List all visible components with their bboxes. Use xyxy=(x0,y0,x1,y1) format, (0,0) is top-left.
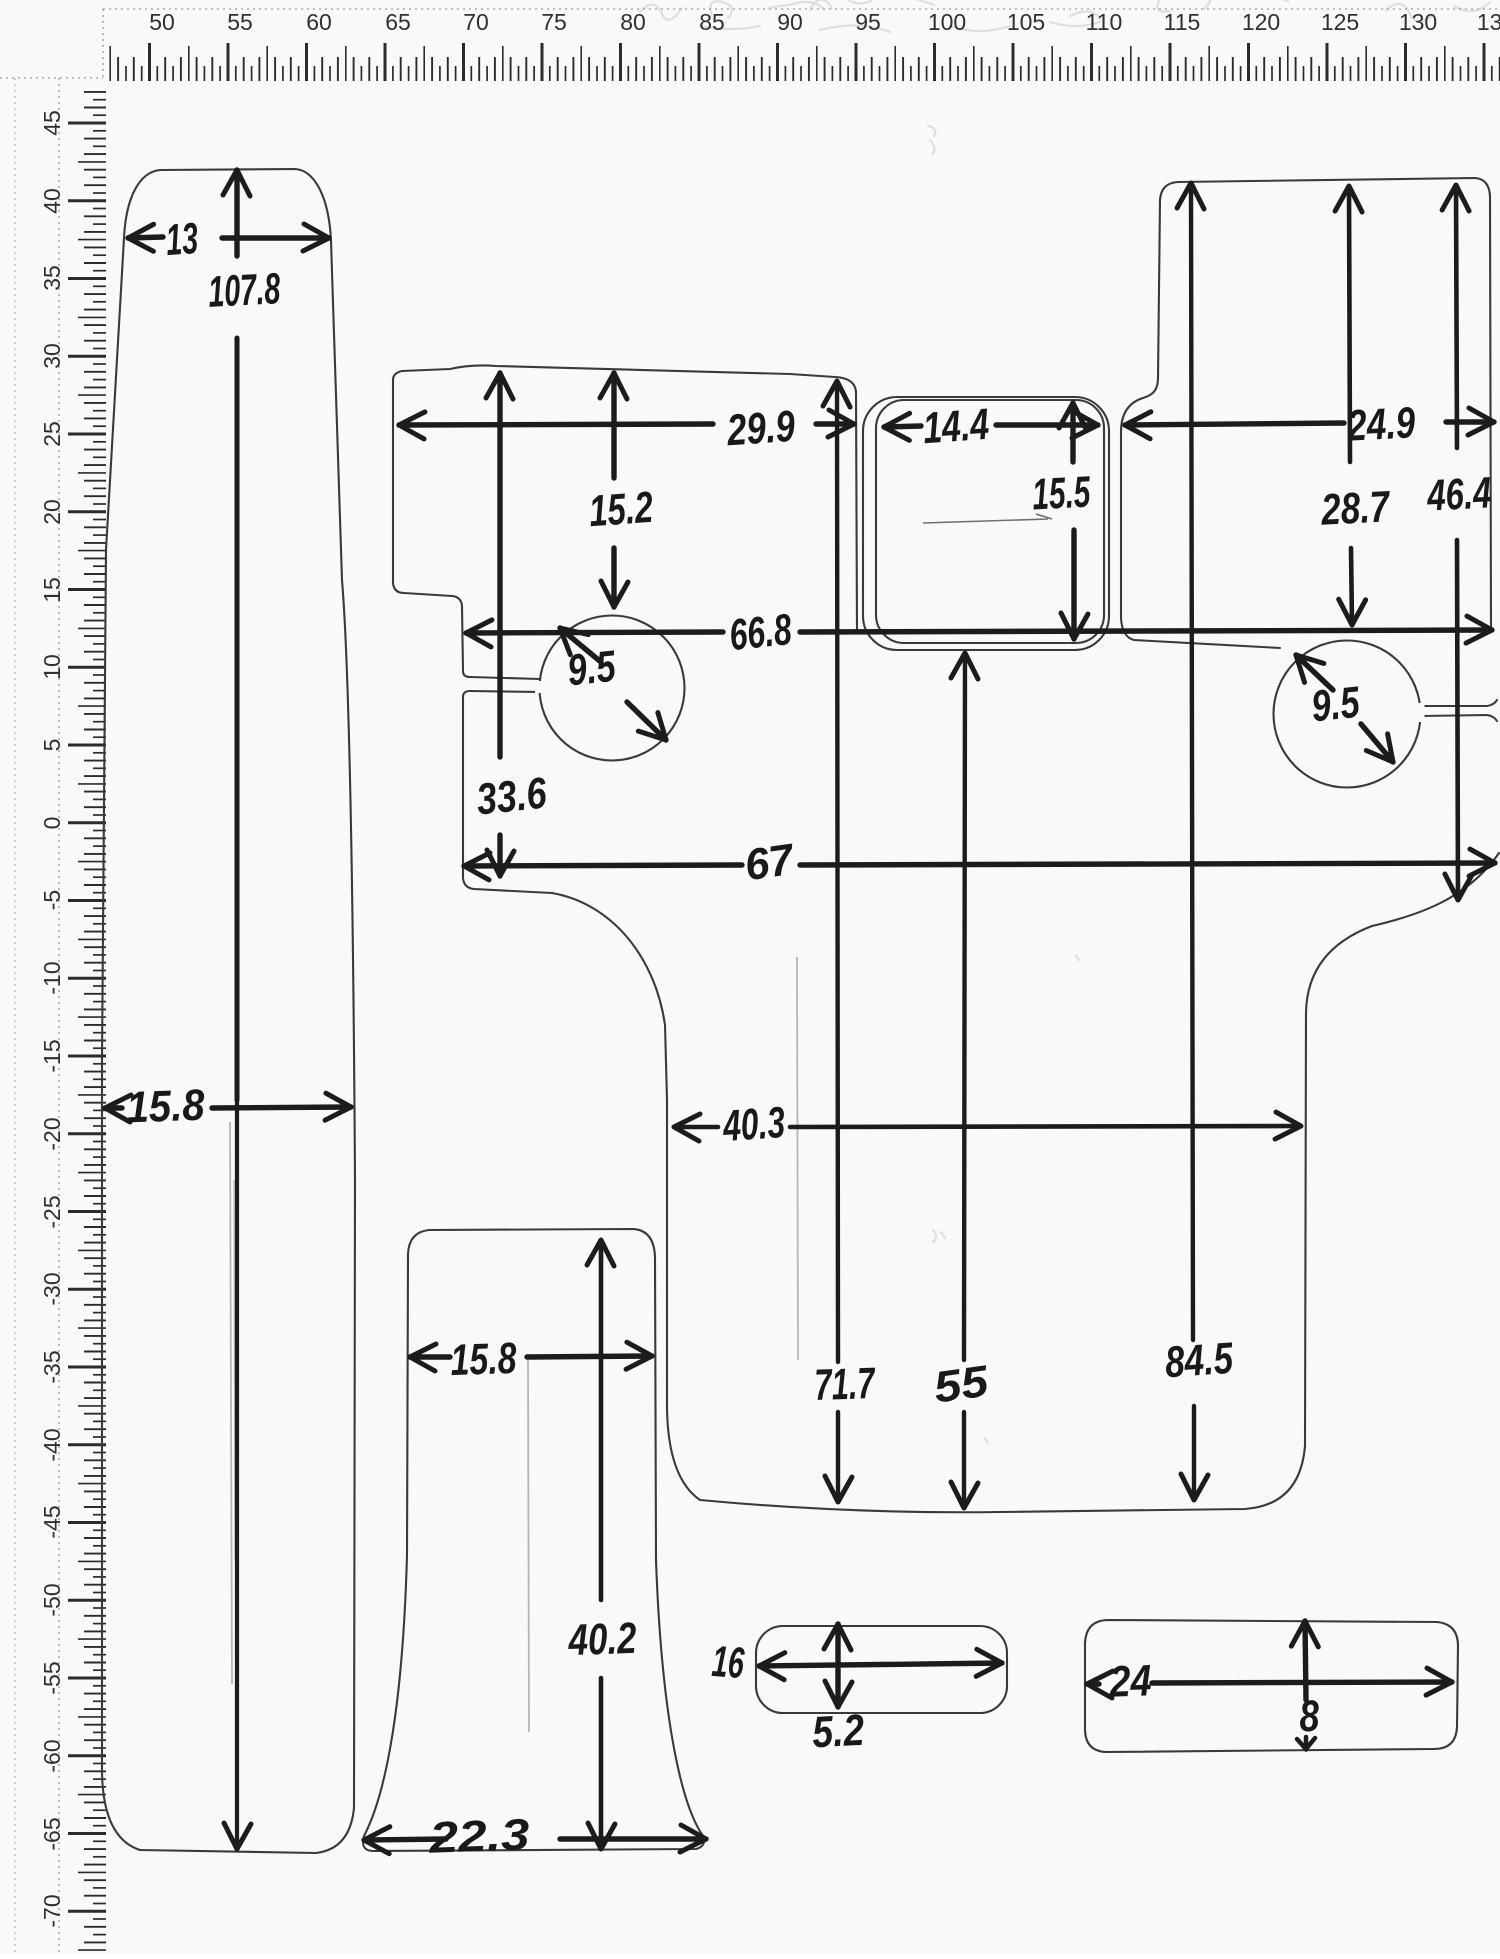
dim 8 vertical lower tiny arrow xyxy=(1297,1737,1315,1749)
svg-text:75: 75 xyxy=(541,9,567,35)
svg-text:-25: -25 xyxy=(39,1195,65,1228)
svg-text:-40: -40 xyxy=(39,1428,65,1461)
top ruler numbers xyxy=(149,9,1500,35)
svg-text:70: 70 xyxy=(463,9,489,35)
dim 28.7 vertical lower xyxy=(1351,548,1352,625)
svg-text:60: 60 xyxy=(306,9,332,35)
svg-text:40: 40 xyxy=(39,188,65,214)
circle cutout in piece E (9.5 dia) xyxy=(1274,641,1421,788)
faint bleed-through handwriting xyxy=(640,0,1490,1443)
dim 24.9 left part xyxy=(1125,423,1344,425)
svg-text:29.9: 29.9 xyxy=(725,402,797,456)
svg-text:40.3: 40.3 xyxy=(721,1098,787,1151)
svg-text:25: 25 xyxy=(39,421,65,447)
svg-text:71.7: 71.7 xyxy=(814,1359,877,1410)
svg-text:-45: -45 xyxy=(39,1505,65,1538)
dim 15.8 piece A left part xyxy=(105,1105,122,1110)
slot C bottom line xyxy=(463,691,540,697)
dim 13 arrow left part xyxy=(128,237,163,238)
dim 40.2 vertical upper xyxy=(599,1240,604,1600)
top ruler ticks xyxy=(110,43,1500,81)
svg-text:125: 125 xyxy=(1321,9,1359,35)
svg-text:-70: -70 xyxy=(39,1894,65,1927)
dim 15.8 piece B right part xyxy=(527,1356,652,1357)
svg-text:45: 45 xyxy=(39,110,65,136)
dim 67 left part xyxy=(464,865,742,866)
svg-text:8: 8 xyxy=(1298,1692,1321,1742)
dim 15.5 vertical upper xyxy=(1070,403,1075,462)
dim 46.4 vertical lower xyxy=(1457,540,1458,900)
dim 5.2 vertical arrow xyxy=(835,1624,840,1707)
dim 40.3 left part xyxy=(674,1125,718,1130)
svg-text:15.5: 15.5 xyxy=(1031,468,1092,520)
dim 84.5 vertical upper xyxy=(1191,183,1193,1340)
svg-text:-30: -30 xyxy=(39,1272,65,1305)
svg-text:5: 5 xyxy=(39,739,65,752)
svg-text:-15: -15 xyxy=(39,1039,65,1072)
dim 8 vertical upper xyxy=(1305,1621,1306,1700)
svg-text:15.2: 15.2 xyxy=(587,483,655,536)
svg-text:85: 85 xyxy=(699,9,725,35)
svg-text:-50: -50 xyxy=(39,1583,65,1616)
svg-text:100: 100 xyxy=(928,9,966,35)
piece M left edge upper xyxy=(393,380,463,670)
svg-text:90: 90 xyxy=(777,9,803,35)
circle cutout in piece M (9.5 dia) xyxy=(540,616,685,761)
svg-text:55: 55 xyxy=(227,9,253,35)
svg-text:5.2: 5.2 xyxy=(811,1706,866,1758)
piece M left edge lower xyxy=(666,1100,668,1408)
svg-text:28.7: 28.7 xyxy=(1319,482,1392,535)
svg-text:16: 16 xyxy=(710,1637,746,1688)
dim 22.3 right part xyxy=(560,1836,706,1841)
dim 107.8 vertical line lower xyxy=(235,338,240,1100)
dim 40.2 vertical lower xyxy=(599,1678,604,1849)
svg-text:33.6: 33.6 xyxy=(474,769,549,825)
dim 24 line xyxy=(1152,1682,1452,1683)
svg-text:110: 110 xyxy=(1086,9,1123,35)
svg-text:80: 80 xyxy=(620,9,646,35)
dim 33.6 vertical lower with small arrow xyxy=(497,835,502,876)
dim 66.8 right part xyxy=(800,630,1492,632)
piece E top edge xyxy=(1160,178,1490,200)
piece B lower-left plank outline xyxy=(363,1229,704,1851)
piece M top edge xyxy=(393,365,856,392)
dim 15.2 vertical upper xyxy=(611,373,616,478)
piece E right edge xyxy=(1490,196,1491,628)
svg-text:-55: -55 xyxy=(39,1661,65,1694)
svg-text:-5: -5 xyxy=(39,890,65,910)
svg-text:66.8: 66.8 xyxy=(727,605,794,660)
svg-text:-20: -20 xyxy=(39,1117,65,1150)
square piece D inner outline xyxy=(876,400,1104,643)
piece M left transition curve xyxy=(552,893,667,1100)
dim 9.5 circle C diagonal upper stroke xyxy=(560,628,601,662)
svg-text:105: 105 xyxy=(1007,9,1045,35)
slot E bottom line xyxy=(1422,715,1497,721)
dim 22.3 left part xyxy=(364,1839,446,1840)
svg-text:24.9: 24.9 xyxy=(1345,398,1417,451)
svg-text:-65: -65 xyxy=(39,1817,65,1850)
slot E top line xyxy=(1422,700,1497,706)
svg-text:15: 15 xyxy=(39,577,65,603)
thin pencil arrow inside square D xyxy=(923,514,1052,523)
faint pencil construction lines xyxy=(230,957,798,1732)
svg-text:40.2: 40.2 xyxy=(567,1614,638,1665)
svg-text:35: 35 xyxy=(39,265,65,291)
svg-text:9.5: 9.5 xyxy=(565,642,618,696)
dim 14.4 right part xyxy=(996,422,1098,427)
dim 24.9 right part xyxy=(1446,419,1494,424)
dim 71.7 vertical lower xyxy=(836,1412,840,1502)
svg-text:-10: -10 xyxy=(39,961,65,994)
svg-text:20: 20 xyxy=(39,499,65,525)
piece G bottom-right rectangle outline xyxy=(1085,1620,1458,1752)
svg-text:13: 13 xyxy=(164,214,199,265)
dim 9.5 circle E diagonal upper stroke xyxy=(1296,655,1333,690)
piece F small rectangle outline xyxy=(756,1626,1007,1713)
dim 71.7 vertical upper xyxy=(837,381,838,1362)
piece M right edge of upper section xyxy=(856,392,857,630)
svg-text:95: 95 xyxy=(855,9,881,35)
dim 66.8 left part xyxy=(466,632,723,633)
dim 9.5 circle C diagonal lower stroke xyxy=(627,702,666,740)
dim 9.5 circle E diagonal lower stroke xyxy=(1361,724,1393,762)
svg-text:46.4: 46.4 xyxy=(1425,468,1492,520)
dim 67 right part xyxy=(800,863,1495,865)
svg-text:107.8: 107.8 xyxy=(207,264,282,317)
piece M left edge mid xyxy=(463,696,552,893)
dim 40.3 right part xyxy=(790,1126,1301,1127)
piece E left edge xyxy=(1121,200,1160,618)
piece M right edge lower xyxy=(1305,853,1499,1446)
piece E bottom edge xyxy=(1121,618,1280,648)
square piece D outer outline xyxy=(756,397,1458,1752)
svg-text:10: 10 xyxy=(39,654,65,680)
svg-text:-35: -35 xyxy=(39,1350,65,1383)
svg-text:30: 30 xyxy=(39,343,65,369)
left ruler numbers xyxy=(39,110,65,1927)
svg-text:55: 55 xyxy=(931,1357,992,1413)
svg-text:115: 115 xyxy=(1164,9,1201,35)
svg-text:15.8: 15.8 xyxy=(450,1334,518,1385)
dim 33.6 vertical upper xyxy=(497,373,502,757)
dim 107.8 vertical line upper xyxy=(234,170,239,256)
left ruler ticks xyxy=(68,92,106,1950)
dim 15.2 vertical lower xyxy=(611,548,616,607)
dim 46.4 vertical upper xyxy=(1456,185,1457,448)
dim 13 arrow right part xyxy=(222,235,329,240)
svg-text:-60: -60 xyxy=(39,1739,65,1772)
dim 14.4 left part xyxy=(884,426,921,427)
svg-text:130: 130 xyxy=(1399,9,1437,35)
dim 28.7 vertical upper xyxy=(1349,186,1350,462)
svg-text:50: 50 xyxy=(149,9,175,35)
svg-text:15.8: 15.8 xyxy=(126,1081,206,1133)
dim 55 vertical lower xyxy=(962,1412,966,1508)
slot C top line xyxy=(463,671,540,679)
svg-text:67: 67 xyxy=(742,835,799,891)
dim 29.9 right part xyxy=(816,421,854,426)
piece M bottom edge xyxy=(667,1408,1305,1512)
svg-text:120: 120 xyxy=(1242,9,1280,35)
dim 15.5 vertical lower xyxy=(1071,530,1076,639)
svg-text:84.5: 84.5 xyxy=(1163,1334,1235,1388)
dim 29.9 left part xyxy=(399,424,713,425)
dim 15.8 piece A right part xyxy=(212,1107,351,1108)
svg-text:135: 135 xyxy=(1477,9,1500,35)
dim 16 horizontal arrow xyxy=(759,1663,1002,1666)
dim 55 vertical upper xyxy=(964,653,965,1360)
dim 84.5 vertical lower xyxy=(1192,1406,1196,1500)
svg-text:22.3: 22.3 xyxy=(428,1810,531,1863)
svg-text:14.4: 14.4 xyxy=(921,400,990,453)
svg-text:65: 65 xyxy=(385,9,411,35)
dim 15.8 piece B left part xyxy=(410,1354,450,1359)
svg-text:24: 24 xyxy=(1108,1656,1153,1706)
dim 24 left arrow tip xyxy=(1087,1681,1099,1686)
svg-text:9.5: 9.5 xyxy=(1309,678,1362,732)
svg-text:0: 0 xyxy=(39,817,65,830)
